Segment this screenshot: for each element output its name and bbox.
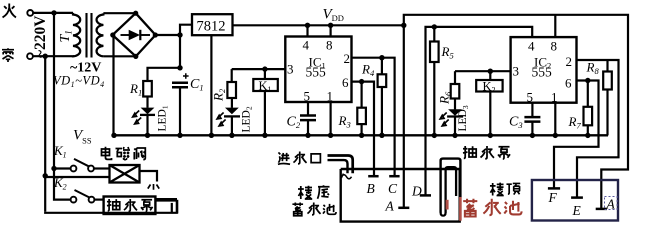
capacitor C1 polarized — [172, 73, 189, 135]
svg-text:555: 555 — [532, 65, 553, 80]
relay coil K1 — [253, 69, 277, 135]
wire IC1 pin6 to electrode B — [352, 82, 375, 176]
svg-text:7812: 7812 — [197, 18, 226, 34]
node C1 at rail — [177, 133, 182, 138]
node R4 top — [379, 55, 384, 60]
pump suction pipe mouth — [441, 212, 446, 216]
node bridge bottom vertex — [133, 54, 138, 59]
wire IC2 pin1 drop — [554, 103, 556, 136]
wire bottom return to pump — [44, 212, 178, 214]
svg-text:2: 2 — [344, 51, 351, 66]
node R4 at rail — [379, 133, 384, 138]
wire K1 feed — [54, 167, 71, 169]
svg-text:R7: R7 — [568, 114, 582, 131]
electrode F — [548, 187, 560, 190]
svg-text:R3: R3 — [338, 113, 351, 130]
wire 7812 ground — [210, 35, 212, 135]
label dianzifa (solenoid valve) — [102, 147, 112, 160]
node R5 top — [432, 24, 437, 29]
resistor R3 — [357, 82, 366, 136]
wire bridge minus to VSS rail — [112, 35, 114, 135]
wire IC1 pin3 row — [232, 68, 286, 70]
electrode D — [420, 194, 431, 197]
transformer T1 primary winding — [73, 13, 80, 56]
wire R1 to LED1 — [146, 97, 148, 108]
node VDD corner junction — [401, 23, 406, 28]
wire IC2 pin8 riser — [554, 15, 556, 37]
wire secondary top to bridge — [103, 12, 135, 14]
wire live terminal to transformer — [33, 12, 73, 14]
node pin4 on VDD — [305, 23, 310, 28]
node bridge top vertex — [133, 11, 138, 16]
svg-text:5: 5 — [304, 89, 311, 104]
svg-text:E: E — [572, 203, 582, 218]
relay coil K2 — [476, 71, 502, 135]
wire plus down to C1 — [179, 35, 181, 68]
wire IC1 pin8 riser — [330, 25, 332, 36]
wire solenoid return to neutral — [45, 176, 109, 178]
svg-text:F: F — [548, 190, 558, 205]
svg-text:6: 6 — [565, 76, 572, 91]
node C2 at rail — [305, 133, 310, 138]
wire R6 riser — [454, 71, 456, 84]
wire IC1 pin2 to electrode C — [352, 58, 395, 176]
resistor R7 — [584, 81, 593, 136]
label huo (live) — [3, 4, 16, 18]
wire to 7812 input — [180, 25, 192, 35]
wire VSS rail — [114, 134, 608, 136]
transformer core — [87, 13, 92, 58]
pump suction pipe inner — [446, 167, 457, 213]
lower tank outline — [341, 169, 460, 222]
svg-text:8: 8 — [326, 38, 333, 53]
capacitor C3 — [524, 103, 540, 136]
electrode C — [389, 175, 399, 178]
label louding (building top) — [490, 183, 504, 196]
wire IC2 pin2 to electrode E — [577, 60, 619, 198]
svg-text:LED3: LED3 — [457, 105, 470, 131]
regulator 7812 box — [192, 14, 233, 35]
switch K1 — [71, 159, 110, 172]
svg-text:3: 3 — [287, 62, 294, 77]
resistor R1 — [143, 81, 152, 97]
node neutral junction — [43, 54, 48, 59]
resistor R4 — [378, 58, 387, 136]
wires and components: main group — [27, 10, 608, 213]
svg-text:VDD: VDD — [323, 7, 344, 24]
op-amp timer IC2 555 box — [511, 37, 577, 103]
svg-text:8: 8 — [551, 39, 558, 54]
wire bridge plus output — [155, 34, 180, 36]
svg-text:T1: T1 — [58, 30, 74, 42]
svg-text:4: 4 — [528, 39, 535, 54]
svg-text:VD1~VD4: VD1~VD4 — [53, 74, 105, 90]
wire VDD top rail over to right — [404, 15, 628, 209]
IC2 pin and name labels — [513, 39, 573, 105]
wire secondary bottom to bridge — [103, 55, 135, 57]
bridge inner diode — [121, 30, 151, 40]
pump suction pipe outer — [441, 159, 461, 213]
CJK labels — [102, 146, 521, 216]
node bridge left vertex — [110, 32, 115, 37]
svg-text:1: 1 — [327, 89, 334, 104]
svg-text:A: A — [385, 199, 395, 214]
svg-text:K1: K1 — [259, 79, 272, 94]
transformer T1 secondary winding — [97, 13, 104, 56]
node R3 at rail — [359, 133, 364, 138]
node neutral drop solenoid branch — [43, 173, 48, 178]
dashed artifact box around A — [605, 197, 618, 210]
upper tank outline (blue) — [532, 180, 618, 221]
svg-text:LED2: LED2 — [241, 106, 254, 132]
svg-text:R5: R5 — [441, 44, 454, 61]
node R5 at rail — [432, 133, 437, 138]
LED LED1 — [133, 108, 155, 136]
node K1 coil top — [262, 66, 267, 71]
electrode B — [368, 175, 378, 178]
svg-text:C3: C3 — [509, 115, 523, 131]
water pump box — [104, 197, 156, 215]
wire IC1 pin4 riser — [306, 25, 308, 36]
IC1 pin and name labels — [287, 38, 350, 104]
LED LED3 — [440, 99, 463, 136]
LED LED2 — [217, 98, 240, 135]
svg-text:C2: C2 — [287, 115, 301, 131]
node live junction — [51, 10, 56, 15]
svg-text:C1: C1 — [190, 77, 204, 93]
electrode E — [571, 196, 583, 199]
svg-text:VSS: VSS — [73, 128, 92, 146]
svg-text:K1: K1 — [53, 143, 67, 160]
svg-text:5: 5 — [527, 90, 534, 105]
svg-text:R4: R4 — [361, 62, 375, 79]
node IC2 pin1 at rail — [553, 133, 558, 138]
electrode A upper tank — [596, 208, 607, 211]
node pin8 on VDD — [328, 23, 333, 28]
label loudi (building bottom) — [298, 186, 312, 199]
solenoid valve box — [110, 165, 140, 183]
svg-text:555: 555 — [306, 65, 327, 80]
suction pipe foot red — [447, 197, 460, 221]
op-amp timer IC1 555 box — [285, 37, 351, 103]
wire live drop to K1 K2 — [54, 13, 71, 200]
wire 7812 output VDD rail — [233, 24, 404, 26]
svg-text:B: B — [367, 181, 375, 196]
node pin1 at rail — [328, 133, 333, 138]
svg-text:R8: R8 — [586, 60, 600, 77]
wire IC2 pin3 row — [455, 70, 511, 72]
node K2 coil at rail — [488, 133, 493, 138]
svg-text:R6: R6 — [437, 91, 454, 105]
label jinshuikou (water inlet) — [278, 152, 290, 164]
electrode A lower tank — [398, 207, 409, 210]
wire electrode D feed — [426, 27, 533, 196]
node R7 top — [585, 78, 590, 83]
node R1 branch — [177, 65, 182, 70]
node rail start — [111, 133, 116, 138]
svg-text:6: 6 — [342, 75, 349, 90]
label choushuibeng right (pump) — [463, 146, 476, 158]
svg-text:4: 4 — [303, 38, 310, 53]
resistor R8 — [603, 60, 612, 135]
terminal live (huo) — [27, 10, 33, 16]
resistor R6 — [451, 84, 460, 99]
resistor R5 — [430, 27, 439, 135]
switch K2 — [71, 190, 104, 203]
label ling (neutral) — [2, 48, 14, 62]
wire electrode A drop (lower tank) — [403, 25, 405, 208]
wire R1 branch — [148, 68, 181, 81]
node LED1 at rail — [145, 133, 150, 138]
capacitor C2 — [300, 102, 316, 135]
node K1 coil at rail — [262, 133, 267, 138]
svg-text:~220V: ~220V — [32, 15, 49, 58]
label xushuichi red (storage tank) — [463, 199, 521, 217]
inlet pipe (jinshuikou) — [328, 156, 353, 179]
svg-text:R2: R2 — [211, 88, 228, 102]
node 7812 ground at rail — [209, 133, 214, 138]
node R7 at rail — [585, 133, 590, 138]
svg-text:2: 2 — [566, 54, 573, 69]
water spray marks — [148, 184, 159, 190]
svg-text:C: C — [388, 181, 398, 196]
wire neutral terminal to transformer — [33, 55, 74, 57]
wire R2 riser — [231, 69, 233, 82]
bridge rectifier VD1-VD4 diamond — [113, 13, 156, 56]
wire IC1 pin1 drop — [330, 102, 332, 135]
node K2 coil top — [488, 69, 493, 74]
node plus junction — [177, 32, 182, 37]
node LED2 at rail — [229, 133, 234, 138]
svg-text:LED1: LED1 — [157, 105, 170, 131]
terminal neutral (ling) — [27, 53, 33, 59]
pump outlet pipe — [155, 200, 177, 214]
wire neutral drop — [44, 56, 46, 212]
label choushuibeng (pump, in box) — [107, 199, 120, 211]
wire solenoid outlet — [140, 171, 158, 182]
resistor R2 — [227, 82, 236, 98]
svg-text:R1: R1 — [129, 81, 142, 98]
svg-text:D: D — [411, 184, 422, 199]
wire IC2 pin6 to electrode F — [554, 81, 599, 189]
node R3 top — [359, 79, 364, 84]
svg-text:K2: K2 — [483, 80, 496, 95]
label xushuichi black (storage tank) — [292, 202, 303, 215]
svg-text:3: 3 — [513, 64, 520, 79]
node live drop at K1 branch — [51, 166, 56, 171]
svg-text:1: 1 — [551, 90, 558, 105]
node LED3 at rail — [452, 133, 457, 138]
node C3 at rail — [530, 133, 535, 138]
node bridge right vertex — [153, 32, 158, 37]
